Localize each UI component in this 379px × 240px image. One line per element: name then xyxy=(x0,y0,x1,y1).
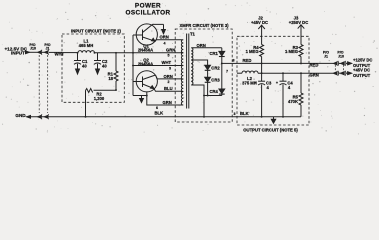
connector assembly dashed line J10 xyxy=(38,55,40,113)
wire diode return bus xyxy=(204,95,222,97)
T1 secondary winding xyxy=(191,48,194,60)
wire Q2 ground return xyxy=(133,95,147,97)
connector GND J10 xyxy=(38,115,42,118)
resistor R3 1 MEG xyxy=(299,45,303,57)
svg-text:+: + xyxy=(255,81,257,85)
connector P/O J1 (output +125V) xyxy=(323,50,329,58)
svg-text:+: + xyxy=(276,81,278,85)
ground arrow xyxy=(141,96,143,99)
wire +125V rail xyxy=(237,62,309,64)
node rectifier output xyxy=(221,62,223,64)
svg-text:GND: GND xyxy=(15,113,26,118)
wire input lead arrow xyxy=(26,51,30,54)
svg-text:+45V DC: +45V DC xyxy=(251,20,268,25)
wire WHT feedback tap xyxy=(133,65,181,67)
wire WHT input xyxy=(49,51,62,53)
connector P/O J1 (output +45V) xyxy=(333,72,337,75)
svg-text:3: 3 xyxy=(234,112,236,116)
svg-text:7: 7 xyxy=(226,70,228,74)
wire ORN Q1 emitter xyxy=(155,40,181,41)
transformer T1 xyxy=(190,32,196,37)
svg-text:RED: RED xyxy=(243,58,252,63)
svg-text:CR2: CR2 xyxy=(211,65,220,70)
resistor R1 18 xyxy=(115,53,117,71)
svg-text:GRN: GRN xyxy=(166,48,175,53)
svg-text:3: 3 xyxy=(169,67,171,71)
svg-text:2N456A: 2N456A xyxy=(138,47,153,52)
wire bias rail xyxy=(132,35,134,96)
wire R3 to R5 xyxy=(300,73,302,93)
svg-text:465 MH: 465 MH xyxy=(79,43,94,48)
svg-text:2N456A: 2N456A xyxy=(138,61,153,66)
input circuit dashed box (NOTE 2) xyxy=(62,34,124,102)
off-page connector J2 +45V DC xyxy=(251,16,268,26)
label +125V DC OUTPUT xyxy=(353,58,372,68)
ground rail wire BLK xyxy=(27,115,31,118)
connector assembly dashed (output) xyxy=(334,65,336,72)
capacitor C3 4 xyxy=(261,73,263,81)
wire Q1 collector to supply arrow xyxy=(152,23,164,25)
inductor L2 375 MH xyxy=(242,71,258,73)
label +45V DC OUTPUT xyxy=(353,68,371,78)
svg-text:BLK: BLK xyxy=(240,111,249,116)
wire rectifier output xyxy=(222,62,237,64)
svg-text:WHT: WHT xyxy=(55,51,65,56)
chassis ground arrow xyxy=(273,117,275,120)
capacitor C1 40 xyxy=(77,53,79,61)
diode CR1 xyxy=(221,48,223,52)
diode CR2 xyxy=(205,65,211,70)
svg-text:OSCILLATOR: OSCILLATOR xyxy=(126,10,171,17)
svg-text:WHT: WHT xyxy=(162,60,172,65)
node bias rail xyxy=(132,52,134,54)
svg-text:5: 5 xyxy=(168,54,170,58)
svg-text:INPUT CIRCUIT (NOTE 2): INPUT CIRCUIT (NOTE 2) xyxy=(71,29,121,34)
wire R2 drop to ground rail xyxy=(85,91,87,117)
svg-text:40: 40 xyxy=(102,64,107,69)
T1 core xyxy=(186,34,188,109)
wire main rail xyxy=(62,52,78,54)
connector GND J1 xyxy=(44,115,48,118)
capacitor C4 4 xyxy=(282,73,284,81)
svg-text:CR4: CR4 xyxy=(210,89,219,94)
svg-text:4: 4 xyxy=(164,42,166,46)
wire R4 to filter rail xyxy=(261,63,263,73)
svg-text:GRN: GRN xyxy=(310,72,319,77)
svg-text:J10: J10 xyxy=(338,54,344,58)
wire BLU Q2 emitter xyxy=(154,89,181,92)
label +12.5V DC INPUT xyxy=(5,46,28,55)
svg-text:T1: T1 xyxy=(190,32,196,37)
svg-text:ORN: ORN xyxy=(164,74,173,79)
diode CR4 xyxy=(221,63,223,89)
svg-text:BLU: BLU xyxy=(164,86,173,91)
svg-text:GRN: GRN xyxy=(163,100,172,105)
node filter ground xyxy=(261,116,263,118)
pin 3 ground entry xyxy=(234,112,236,116)
svg-text:8: 8 xyxy=(233,58,235,62)
svg-text:18: 18 xyxy=(108,76,113,81)
svg-text:INPUT: INPUT xyxy=(11,51,25,56)
wire GRN Q2 bottom xyxy=(147,92,181,105)
svg-text:J1: J1 xyxy=(46,46,50,50)
resistor R2 1,200 xyxy=(86,89,93,93)
output circuit dashed box (NOTE 5) xyxy=(237,36,309,125)
wire ORN secondary top xyxy=(194,47,222,49)
svg-text:ORN: ORN xyxy=(160,35,169,40)
connector P/O J10 (output +125V) xyxy=(337,50,344,58)
wire filter rail xyxy=(237,72,242,74)
svg-text:CR1: CR1 xyxy=(210,51,219,56)
svg-text:OUTPUT: OUTPUT xyxy=(353,73,371,78)
svg-text:1 MEG: 1 MEG xyxy=(246,49,259,54)
svg-text:POWER: POWER xyxy=(135,3,161,10)
wire secondary tap to CR2 xyxy=(194,60,208,65)
svg-text:RED: RED xyxy=(310,63,319,68)
svg-text:BLK: BLK xyxy=(155,111,164,116)
capacitor C2 40 xyxy=(97,53,99,61)
T1 primary winding xyxy=(181,40,183,53)
node R1 xyxy=(115,52,117,54)
svg-text:ORN: ORN xyxy=(197,43,206,48)
inductor L1 465 MH xyxy=(79,39,94,49)
connector assembly dashed line J1 xyxy=(47,55,49,113)
transistor Q2 2N456A xyxy=(136,71,157,92)
diode CR3 xyxy=(205,77,211,82)
label GND xyxy=(15,113,26,118)
wire secondary bottom to ground xyxy=(194,85,204,117)
svg-text:CR3: CR3 xyxy=(211,77,220,82)
wire +45V output xyxy=(309,72,333,74)
svg-text:J10: J10 xyxy=(30,46,36,50)
resistor R5 470K xyxy=(299,93,303,105)
svg-text:40: 40 xyxy=(82,64,87,69)
svg-text:2: 2 xyxy=(168,80,170,84)
node C1 xyxy=(77,52,79,54)
xmfr circuit dashed box (NOTE 3) xyxy=(175,29,232,122)
svg-text:XMFR CIRCUIT (NOTE 3): XMFR CIRCUIT (NOTE 3) xyxy=(179,23,229,28)
resistor R4 1 MEG xyxy=(260,45,264,57)
node C2 xyxy=(94,52,96,54)
svg-text:1,200: 1,200 xyxy=(94,96,105,101)
wire GRN main rail label xyxy=(166,48,175,53)
title POWER OSCILLATOR xyxy=(126,3,171,17)
svg-text:+250V DC: +250V DC xyxy=(289,20,308,25)
connector P/O J10 (output +45V) xyxy=(341,72,345,75)
wire ORN Q2 collector xyxy=(156,75,182,79)
transistor Q1 2N456A xyxy=(136,24,157,45)
svg-text:1 MEG: 1 MEG xyxy=(285,49,298,54)
off-page connector J3 +250V DC xyxy=(289,15,308,24)
svg-text:470K: 470K xyxy=(288,99,298,104)
connector P/O J10 (input) xyxy=(29,43,36,51)
wire +125V output xyxy=(309,62,333,64)
svg-text:OUTPUT CIRCUIT (NOTE 5): OUTPUT CIRCUIT (NOTE 5) xyxy=(243,127,298,132)
connector P/O J1 (input) xyxy=(44,43,50,51)
svg-text:6: 6 xyxy=(156,106,158,110)
svg-text:J1: J1 xyxy=(324,54,328,58)
